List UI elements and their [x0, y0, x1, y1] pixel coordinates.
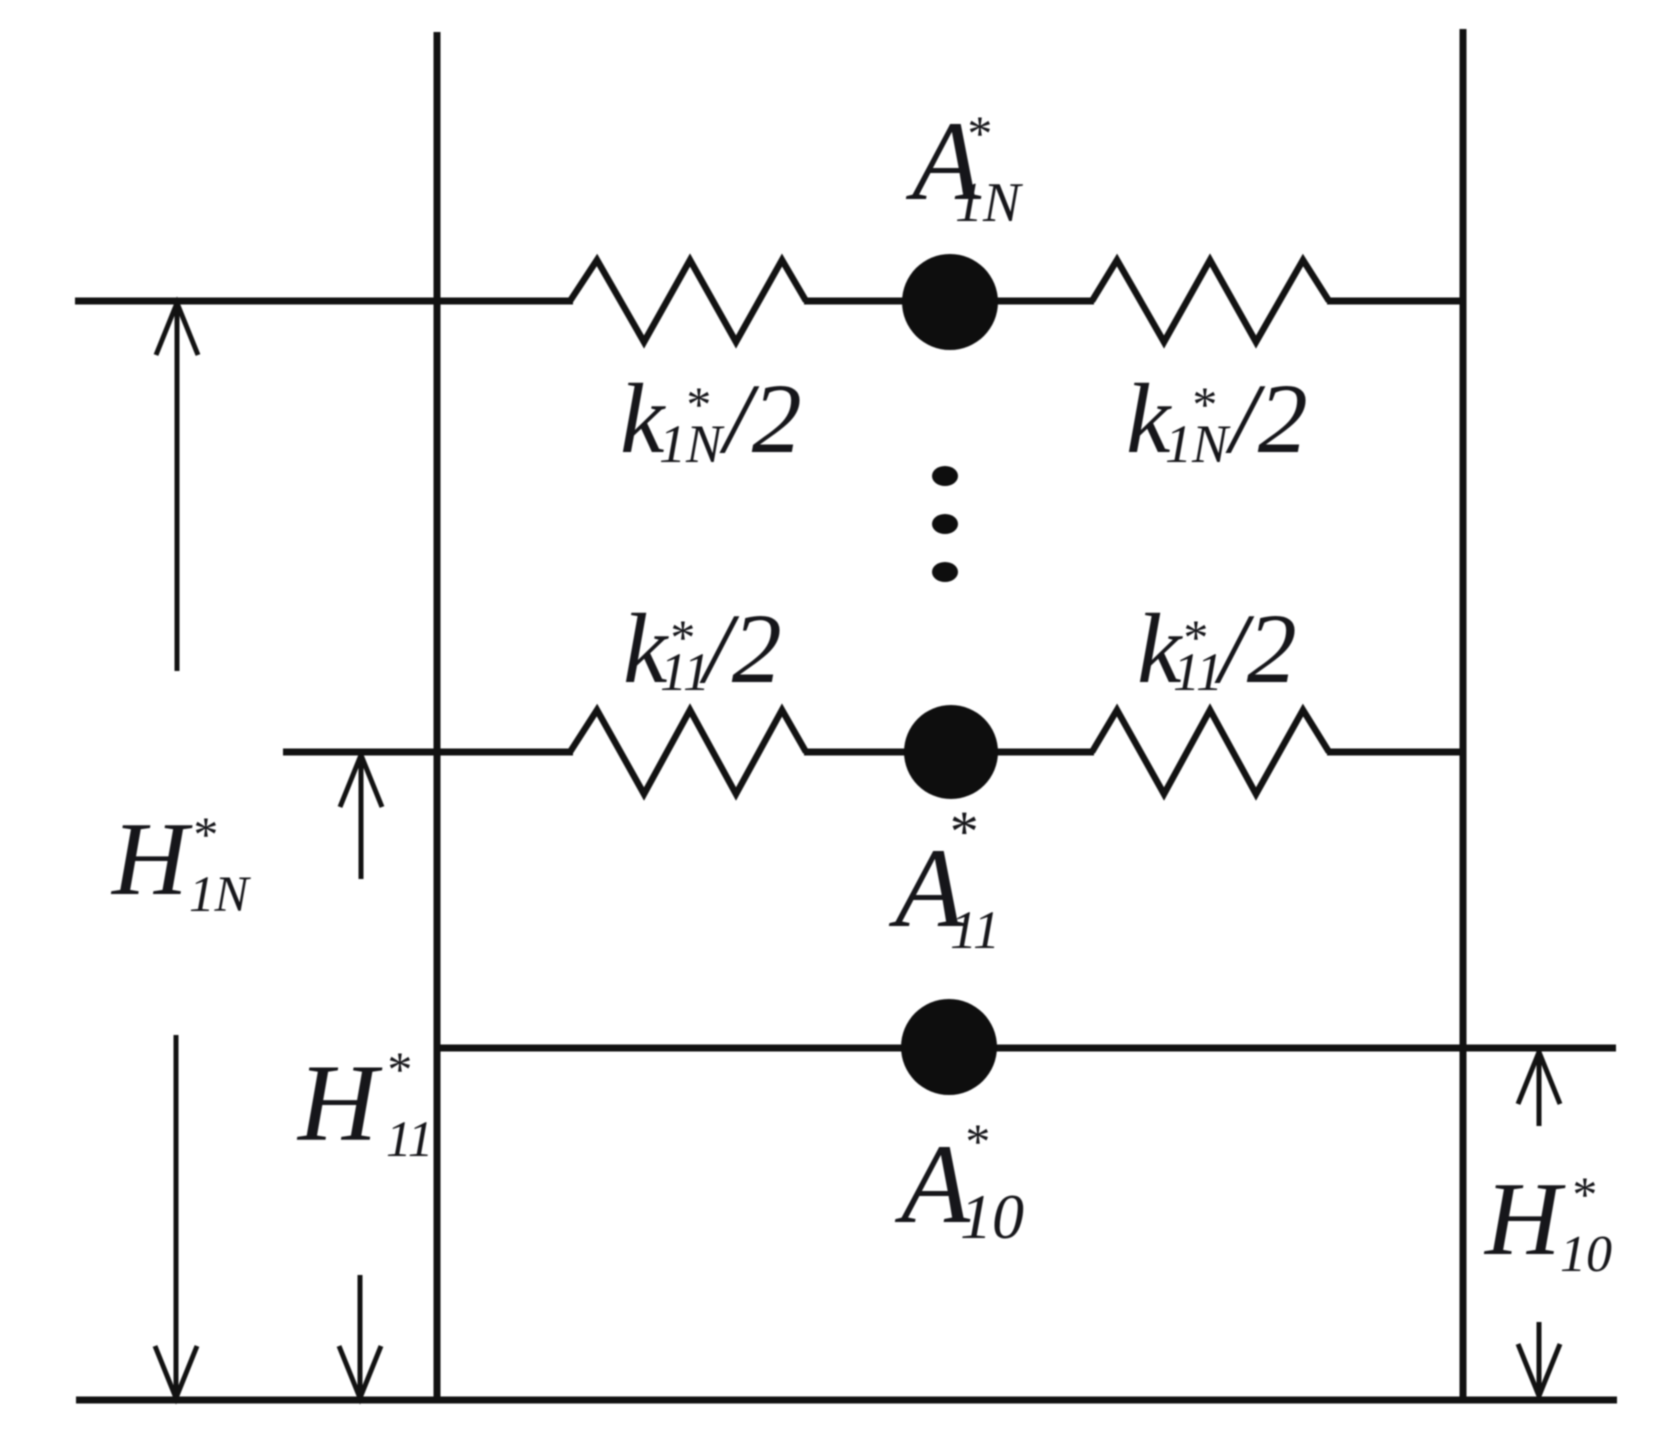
label k*_11/2 left [623, 593, 782, 704]
svg-text:/2: /2 [1225, 363, 1308, 474]
label H*_10 [1483, 1160, 1612, 1283]
svg-text:1N: 1N [1165, 414, 1231, 474]
wire: floor line 11 middle segment [804, 749, 1094, 756]
wire: floor line 1N middle segment [804, 298, 1094, 305]
dimension arrow H10 upper (points up to floor 10) [1537, 1052, 1542, 1126]
right column wall [1460, 29, 1467, 1402]
svg-text:H: H [110, 800, 193, 917]
dimension arrow H11 lower (points down to ground) [358, 1275, 363, 1398]
wire: floor line 1N left segment [75, 298, 573, 305]
vertical ellipsis dots [932, 466, 958, 486]
label H*_1N [110, 800, 252, 923]
label A*_1N [905, 99, 1023, 234]
svg-text:H: H [1483, 1160, 1566, 1277]
label H*_11 [296, 1041, 433, 1168]
svg-text:1N: 1N [189, 867, 252, 923]
label A*_11 [888, 799, 1000, 960]
svg-text:*: * [965, 105, 990, 161]
spring k1N/2 left (zigzag) [570, 260, 806, 342]
left column wall [434, 32, 441, 1402]
svg-text:H: H [296, 1042, 383, 1164]
wire: floor line 10 [437, 1045, 1616, 1052]
svg-text:/2: /2 [719, 363, 802, 474]
ground line [76, 1397, 1617, 1404]
svg-text:*: * [1570, 1166, 1595, 1222]
label k*_1N/2 right [1126, 363, 1308, 474]
svg-text:1N: 1N [955, 172, 1023, 234]
dimension arrow H10 lower (points down to ground) [1537, 1322, 1542, 1396]
svg-text:*: * [385, 1041, 410, 1097]
svg-text:11: 11 [386, 1112, 433, 1168]
node A11 (mass) [904, 705, 998, 799]
svg-text:11: 11 [950, 900, 1000, 960]
dimension arrow H1N lower (points down to ground) [174, 1035, 179, 1398]
dimension arrow H11 upper (points up to floor 11) [359, 755, 364, 879]
dimension arrow H1N upper (points up to floor 1N) [175, 303, 180, 671]
label k*_1N/2 left [620, 363, 802, 474]
svg-text:*: * [963, 1113, 988, 1169]
svg-text:10: 10 [1560, 1226, 1612, 1283]
wire: floor line 11 right segment [1327, 749, 1463, 756]
spring k11/2 left (zigzag) [570, 710, 806, 794]
svg-text:1N: 1N [659, 414, 725, 474]
node A1N (mass) [902, 254, 998, 350]
wire: floor line 11 left segment [283, 749, 573, 756]
spring k11/2 right (zigzag) [1092, 710, 1329, 794]
svg-text:11: 11 [1173, 642, 1223, 702]
label k*_11/2 right [1137, 593, 1297, 704]
node A10 (mass) [901, 999, 997, 1095]
svg-text:10: 10 [960, 1181, 1024, 1252]
svg-text:*: * [947, 799, 976, 864]
svg-text:*: * [191, 806, 216, 862]
spring k1N/2 right (zigzag) [1092, 260, 1329, 342]
label A*_10 [894, 1113, 1024, 1252]
wire: floor line 1N right segment [1327, 298, 1463, 305]
svg-text:/2: /2 [1214, 593, 1297, 704]
svg-text:11: 11 [660, 642, 710, 702]
svg-text:/2: /2 [699, 593, 782, 704]
